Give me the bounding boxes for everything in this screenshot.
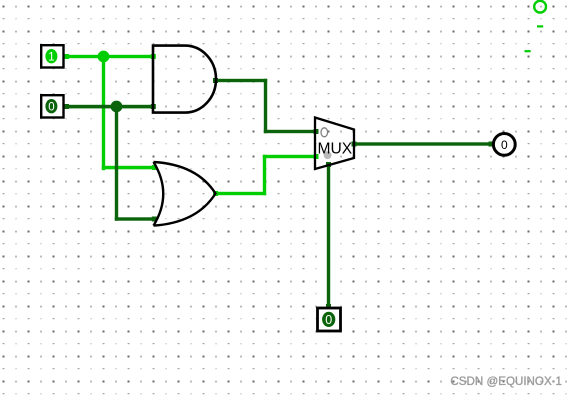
svg-text:0: 0 [48, 102, 54, 114]
svg-text:1: 1 [48, 52, 54, 64]
svg-text:0: 0 [501, 138, 508, 152]
svg-text:CSDN @EQUINOX·1: CSDN @EQUINOX·1 [450, 375, 562, 388]
svg-text:MUX: MUX [317, 141, 352, 158]
svg-text:0: 0 [325, 313, 332, 327]
